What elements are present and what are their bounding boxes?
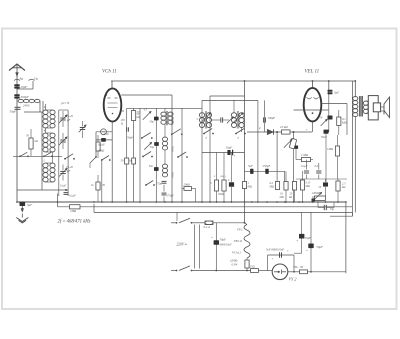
svg-text:10μF: 10μF: [226, 145, 233, 149]
svg-text:5μF: 5μF: [334, 91, 339, 95]
svg-text:1MΩ: 1MΩ: [70, 209, 77, 213]
svg-text:2 MΩ: 2 MΩ: [301, 153, 309, 157]
svg-text:175pF: 175pF: [156, 183, 164, 186]
svg-text:50: 50: [26, 134, 30, 138]
svg-text:0.3W: 0.3W: [232, 263, 239, 267]
svg-text:VCh11: VCh11: [232, 251, 241, 255]
svg-text:TVO: TVO: [104, 133, 109, 136]
svg-text:0.1μF: 0.1μF: [98, 142, 105, 146]
svg-text:175pF: 175pF: [167, 195, 175, 198]
svg-text:50: 50: [137, 111, 140, 114]
svg-text:+: +: [272, 257, 274, 261]
svg-text:1MΩ: 1MΩ: [327, 147, 333, 151]
svg-text:VY 2: VY 2: [289, 276, 297, 281]
svg-text:5nF 8000/10nF: 5nF 8000/10nF: [266, 248, 284, 252]
svg-text:Ag: Ag: [19, 77, 24, 81]
svg-text:250pF: 250pF: [263, 164, 271, 168]
svg-text:0.1μF: 0.1μF: [301, 165, 308, 168]
svg-text:kΩ: kΩ: [35, 140, 38, 143]
svg-text:1.: 1.: [214, 175, 216, 178]
svg-text:+: +: [234, 154, 236, 158]
svg-text:▾: ▾: [106, 94, 108, 97]
svg-text:VY2: VY2: [237, 228, 243, 232]
svg-text:20pF: 20pF: [21, 85, 28, 89]
svg-text:7000: 7000: [171, 146, 174, 152]
svg-text:VCh 11: VCh 11: [102, 70, 117, 75]
svg-text:VEL 11: VEL 11: [305, 70, 320, 75]
svg-text:+: +: [211, 236, 213, 240]
svg-text:25Ω: 25Ω: [250, 264, 256, 268]
svg-text:50kΩ: 50kΩ: [218, 193, 224, 196]
svg-text:MΩ: MΩ: [305, 185, 310, 188]
svg-text:+: +: [287, 249, 289, 253]
svg-text:20kΩ: 20kΩ: [184, 183, 190, 187]
svg-text:50n: 50n: [149, 165, 154, 168]
svg-text:50μF: 50μF: [305, 236, 311, 240]
svg-text:50: 50: [320, 117, 323, 120]
svg-text:VEL, 1W: VEL, 1W: [293, 266, 304, 269]
svg-text:5.: 5.: [197, 118, 199, 121]
svg-text:kΩ: kΩ: [289, 196, 292, 199]
svg-text:7000: 7000: [171, 172, 174, 178]
svg-text:2000: 2000: [171, 119, 174, 125]
svg-text:50μF: 50μF: [220, 238, 227, 242]
svg-text:8000/10nF: 8000/10nF: [220, 243, 233, 246]
svg-text:10 kΩ: 10 kΩ: [280, 125, 288, 129]
svg-text:1W: 1W: [102, 184, 106, 187]
svg-text:0.1μF: 0.1μF: [60, 185, 67, 188]
svg-text:50μ: 50μ: [150, 121, 155, 124]
svg-text:W: W: [44, 130, 47, 133]
svg-text:kΩ: kΩ: [342, 185, 345, 189]
svg-text:pcr N: pcr N: [61, 101, 70, 105]
svg-text:Ω: Ω: [121, 122, 123, 125]
svg-text:80(+): 80(+): [221, 175, 227, 178]
svg-text:50: 50: [121, 160, 124, 163]
svg-text:220V≂: 220V≂: [177, 242, 189, 246]
svg-text:1k: 1k: [91, 184, 94, 187]
svg-text:4.5: 4.5: [144, 109, 148, 112]
svg-text:MΩ: MΩ: [341, 120, 347, 124]
svg-text:+: +: [296, 239, 298, 243]
svg-text:L: L: [43, 160, 46, 163]
svg-text:5nF: 5nF: [248, 164, 253, 168]
svg-text:50: 50: [122, 110, 125, 113]
svg-text:d: d: [259, 127, 261, 130]
svg-text:50μ: 50μ: [150, 146, 155, 149]
svg-text:0.01: 0.01: [315, 165, 320, 168]
svg-text:Ug: Ug: [34, 77, 38, 81]
svg-text:5.: 5.: [210, 182, 212, 185]
svg-text:δ: δ: [228, 179, 230, 182]
svg-text:d: d: [206, 137, 208, 140]
svg-text:300pF: 300pF: [21, 95, 29, 99]
svg-text:5μF: 5μF: [27, 203, 32, 207]
svg-text:MΩ: MΩ: [279, 196, 284, 199]
svg-text:VEL11: VEL11: [234, 239, 243, 243]
svg-text:kΩ: kΩ: [137, 116, 140, 119]
svg-text:0.1μF: 0.1μF: [69, 194, 76, 198]
svg-text:MΩ: MΩ: [247, 185, 252, 188]
svg-text:50μF: 50μF: [317, 245, 324, 249]
svg-text:K: K: [43, 106, 46, 109]
svg-text:+: +: [306, 128, 308, 132]
svg-text:50pF: 50pF: [10, 110, 17, 114]
svg-text:0.2 A: 0.2 A: [204, 225, 210, 229]
svg-text:50: 50: [319, 186, 322, 189]
svg-text:d: d: [238, 137, 240, 140]
svg-text:50pF: 50pF: [127, 136, 133, 140]
svg-text:MΩ: MΩ: [269, 185, 275, 189]
svg-text:100pF: 100pF: [268, 116, 276, 120]
svg-text:2400: 2400: [23, 103, 30, 107]
svg-text:2f = 468/471 kHz: 2f = 468/471 kHz: [58, 220, 91, 225]
svg-text:40kΩ: 40kΩ: [98, 148, 104, 152]
svg-text:+: +: [306, 249, 308, 253]
